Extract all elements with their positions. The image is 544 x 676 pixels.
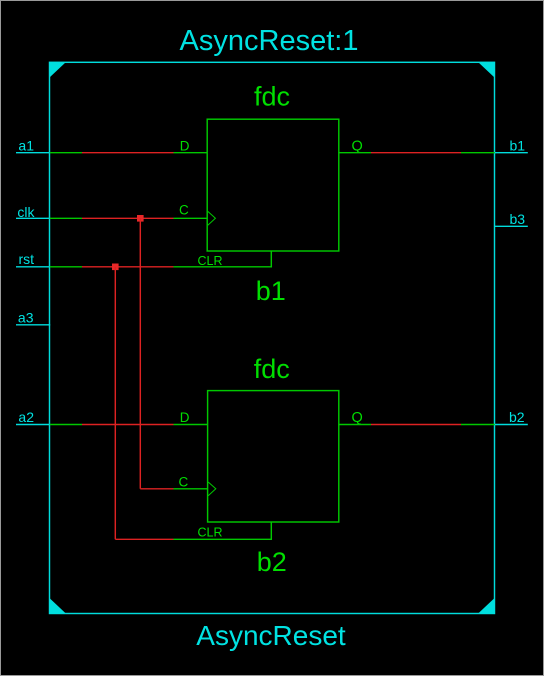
- svg-text:C: C: [179, 474, 189, 489]
- port stub b2: [495, 424, 528, 426]
- svg-text:CLR: CLR: [198, 526, 223, 540]
- svg-text:b2: b2: [509, 409, 525, 425]
- svg-text:AsyncReset: AsyncReset: [196, 620, 346, 651]
- port stub rst: [16, 266, 50, 268]
- port stub clk: [16, 217, 50, 219]
- port stub b3: [495, 225, 528, 227]
- wire net a1: border to D stub: [50, 152, 82, 154]
- wire net a1 red segment: [82, 152, 174, 154]
- pin stub Q U1: [339, 152, 372, 154]
- wire net a2 red segment: [82, 424, 174, 426]
- wire net clk: border segment: [50, 217, 82, 219]
- pin stub C U1: [174, 217, 208, 219]
- port stub a1: [16, 152, 50, 154]
- corner mark top-right: [478, 62, 495, 78]
- wire net clk to C U2 red segment: [140, 488, 173, 490]
- svg-text:b1: b1: [256, 276, 286, 306]
- svg-text:a2: a2: [18, 409, 34, 425]
- svg-text:fdc: fdc: [254, 82, 290, 112]
- sheet border: [49, 62, 495, 614]
- corner mark bottom-left: [49, 598, 66, 614]
- wire net clk vertical branch: [139, 218, 141, 489]
- svg-text:D: D: [180, 410, 190, 425]
- port stub a3: [16, 324, 50, 326]
- wire net b1: to border: [461, 152, 495, 154]
- clock triangle pin C U1: [208, 211, 216, 225]
- pin stub D U1: [174, 152, 208, 154]
- pin stub D U2: [174, 424, 209, 426]
- wire net b1 red segment: [371, 152, 461, 154]
- junction clk: [137, 215, 144, 222]
- wire net rst red segment: [82, 266, 174, 268]
- svg-text:b1: b1: [510, 138, 526, 154]
- corner mark bottom-right: [478, 598, 495, 614]
- wire net rst: border segment: [50, 266, 82, 268]
- wire net rst to CLR U2 red segment: [115, 538, 173, 540]
- flip-flop U1 (fdc) body: [207, 119, 339, 251]
- svg-text:a3: a3: [18, 310, 34, 326]
- svg-text:b3: b3: [510, 211, 526, 227]
- svg-text:a1: a1: [18, 138, 34, 154]
- svg-text:rst: rst: [18, 251, 34, 267]
- svg-text:C: C: [179, 203, 189, 218]
- wire net a2: border segment: [50, 424, 82, 426]
- junction rst: [112, 264, 119, 271]
- svg-text:b2: b2: [257, 547, 287, 577]
- pin stub CLR U2 horizontal: [174, 538, 272, 540]
- wire net b2: to border: [461, 424, 495, 426]
- port stub a2: [16, 424, 50, 426]
- pin stub CLR U2 vertical: [270, 522, 272, 540]
- wire net b2 red segment: [371, 424, 461, 426]
- svg-text:fdc: fdc: [254, 354, 290, 384]
- pin stub CLR U1 horizontal: [174, 266, 272, 268]
- corner mark top-left: [49, 62, 66, 78]
- pin stub CLR U1 vertical: [270, 251, 272, 268]
- flip-flop U2 (fdc) body: [208, 391, 339, 522]
- svg-text:AsyncReset:1: AsyncReset:1: [180, 25, 359, 57]
- svg-text:CLR: CLR: [198, 254, 223, 268]
- wire net clk red segment: [82, 217, 174, 219]
- wire net rst vertical branch: [114, 267, 116, 540]
- clock triangle pin C U2: [208, 482, 216, 496]
- pin stub Q U2: [339, 424, 372, 426]
- port stub b1: [495, 152, 528, 154]
- pin stub C U2: [174, 488, 209, 490]
- svg-text:D: D: [180, 138, 190, 153]
- svg-text:Q: Q: [352, 410, 363, 426]
